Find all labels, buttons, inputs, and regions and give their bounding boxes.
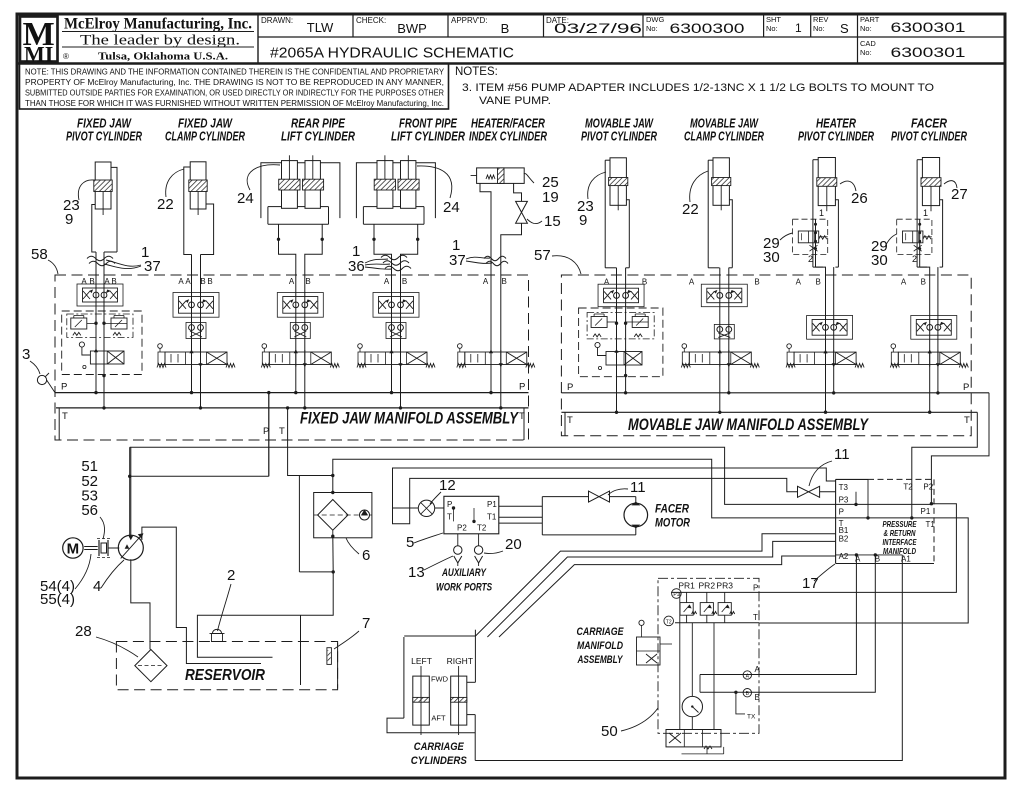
stack9 directional valve bbox=[890, 344, 968, 368]
svg-text:CLAMP CYLINDER: CLAMP CYLINDER bbox=[684, 130, 764, 144]
svg-text:S: S bbox=[840, 21, 849, 36]
label 29/30 cyl9 bbox=[871, 234, 897, 269]
cylinder 7: movable jaw clamp bbox=[708, 158, 732, 412]
svg-text:SUBMITTED OUTSIDE PARTIES FOR: SUBMITTED OUTSIDE PARTIES FOR EXAMINATIO… bbox=[25, 89, 444, 98]
label 23/9 cyl6 bbox=[577, 172, 606, 229]
labels 51 52 53 56 bbox=[81, 458, 104, 539]
svg-text:4: 4 bbox=[93, 578, 101, 595]
svg-text:CLAMP CYLINDER: CLAMP CYLINDER bbox=[165, 130, 245, 144]
svg-text:NOTES:: NOTES: bbox=[455, 66, 498, 78]
stack3 port labels bbox=[289, 277, 311, 286]
stack7 rail dots bbox=[718, 391, 730, 414]
svg-text:P1: P1 bbox=[921, 507, 931, 516]
cylinder 8: heater pivot bbox=[813, 158, 839, 413]
svg-text:T2: T2 bbox=[477, 524, 487, 533]
svg-text:36: 36 bbox=[348, 258, 365, 275]
svg-text:A: A bbox=[178, 277, 184, 286]
movable jaw manifold box bbox=[561, 275, 971, 436]
manifold2 T rail bbox=[561, 412, 977, 435]
svg-text:CARRIAGE: CARRIAGE bbox=[577, 626, 625, 638]
svg-text:T1: T1 bbox=[487, 513, 497, 522]
label 1/37 cyl5 bbox=[449, 237, 492, 269]
company name text bbox=[62, 16, 254, 63]
svg-text:AUXILIARY: AUXILIARY bbox=[441, 567, 487, 579]
svg-text:15: 15 bbox=[544, 213, 561, 230]
wire pump case drain bbox=[142, 527, 261, 663]
svg-text:37: 37 bbox=[449, 252, 466, 269]
svg-text:LIFT CYLINDER: LIFT CYLINDER bbox=[391, 130, 465, 144]
svg-text:®: ® bbox=[63, 52, 69, 61]
stack6 counterbalance pair bbox=[579, 308, 663, 377]
svg-text:PIVOT CYLINDER: PIVOT CYLINDER bbox=[891, 130, 967, 144]
cylinder 4: front pipe lift (dual) bbox=[356, 155, 435, 275]
diagonal wires to interface bbox=[475, 534, 835, 637]
svg-text:20: 20 bbox=[505, 536, 522, 553]
stack2 directional valve bbox=[157, 344, 235, 368]
carriage bottom valve bbox=[666, 730, 724, 754]
svg-text:P: P bbox=[839, 508, 844, 517]
stack2 flow control bbox=[173, 293, 219, 318]
label 17 bbox=[802, 564, 835, 592]
wire P feed to manifold1 bbox=[268, 393, 270, 477]
svg-text:B: B bbox=[402, 277, 407, 286]
svg-text:1: 1 bbox=[923, 208, 928, 218]
svg-text:& RETURN: & RETURN bbox=[884, 529, 916, 538]
svg-text:B: B bbox=[89, 277, 94, 286]
stack6 directional valve bbox=[595, 342, 642, 369]
tank drop pipe bbox=[300, 615, 302, 685]
svg-text:A: A bbox=[755, 665, 761, 674]
stack2 dual check bbox=[186, 323, 206, 339]
svg-text:A: A bbox=[384, 277, 390, 286]
svg-text:PR1: PR1 bbox=[678, 581, 695, 591]
svg-text:9: 9 bbox=[65, 211, 73, 228]
stack7 flow control bbox=[701, 284, 747, 307]
svg-text:DRAWN:: DRAWN: bbox=[261, 16, 293, 25]
svg-text:SHT: SHT bbox=[766, 15, 781, 24]
wire manifold2 P rail to interface P2 bbox=[930, 393, 989, 506]
carriage B line bbox=[700, 689, 752, 698]
svg-text:24: 24 bbox=[443, 199, 460, 216]
confidential note box bbox=[20, 64, 449, 110]
svg-text:PIVOT CYLINDER: PIVOT CYLINDER bbox=[581, 130, 657, 144]
pressure & return interface manifold bbox=[836, 479, 936, 563]
svg-text:A: A bbox=[104, 277, 110, 286]
pressure gauge 12 bbox=[418, 477, 455, 517]
McElroy logo bbox=[20, 16, 69, 67]
svg-text:#2065A HYDRAULIC SCHEMATIC: #2065A HYDRAULIC SCHEMATIC bbox=[270, 46, 514, 62]
stack4 flow control bbox=[373, 293, 419, 318]
svg-text:A: A bbox=[604, 278, 610, 287]
svg-text:1: 1 bbox=[819, 208, 824, 218]
label 26 cyl8 bbox=[840, 181, 868, 207]
svg-text:WORK PORTS: WORK PORTS bbox=[436, 582, 492, 594]
svg-text:B1: B1 bbox=[839, 526, 849, 535]
svg-text:T: T bbox=[279, 426, 285, 437]
carriage TX stub bbox=[736, 692, 745, 714]
svg-text:MOVABLE JAW: MOVABLE JAW bbox=[690, 117, 759, 131]
carriage internal wires bbox=[680, 592, 714, 729]
svg-text:PROPERTY OF McElroy Manufactur: PROPERTY OF McElroy Manufacturing, Inc. … bbox=[25, 78, 444, 87]
electric motor M bbox=[63, 538, 83, 558]
svg-text:26: 26 bbox=[851, 190, 868, 207]
svg-text:The leader by design.: The leader by design. bbox=[80, 33, 240, 49]
label 28 strainer bbox=[75, 623, 138, 657]
carriage PR labels bbox=[678, 581, 760, 721]
svg-text:B: B bbox=[111, 277, 116, 286]
svg-text:24: 24 bbox=[237, 190, 254, 207]
stack1 counterbalance pair bbox=[62, 311, 142, 375]
svg-text:3. ITEM #56 PUMP ADAPTER INCLU: 3. ITEM #56 PUMP ADAPTER INCLUDES 1/2-13… bbox=[462, 82, 934, 94]
stack6 rail dots bbox=[615, 374, 628, 414]
label 24 cyl3 bbox=[237, 165, 280, 207]
svg-text:A: A bbox=[901, 278, 907, 287]
svg-text:P1: P1 bbox=[673, 592, 679, 598]
svg-text:3: 3 bbox=[22, 346, 30, 363]
label 15 leader bbox=[527, 213, 561, 230]
svg-text:22: 22 bbox=[682, 201, 699, 218]
svg-text:B: B bbox=[200, 277, 205, 286]
svg-text:BWP: BWP bbox=[397, 21, 427, 36]
svg-text:No:: No: bbox=[860, 24, 872, 33]
svg-text:5: 5 bbox=[406, 534, 414, 551]
cylinder 6: movable jaw pivot bbox=[605, 158, 629, 412]
svg-text:9: 9 bbox=[579, 212, 587, 229]
svg-text:T: T bbox=[964, 415, 970, 426]
wire manifold2 T rail to interface T2 bbox=[910, 412, 977, 519]
stack1 flow control bbox=[77, 284, 123, 306]
stack7 port labels bbox=[689, 278, 760, 287]
svg-text:2: 2 bbox=[227, 567, 235, 584]
stack4 port labels bbox=[384, 277, 407, 286]
wire pump pressure riser bbox=[128, 447, 269, 536]
fixed jaw manifold box bbox=[55, 275, 529, 440]
label 58 manifold1 bbox=[31, 246, 58, 274]
svg-text:MANIFOLD: MANIFOLD bbox=[577, 640, 623, 652]
svg-text:A: A bbox=[185, 277, 191, 286]
svg-text:B: B bbox=[501, 21, 510, 36]
svg-text:TX: TX bbox=[747, 714, 756, 721]
svg-text:2: 2 bbox=[808, 254, 813, 264]
svg-text:37: 37 bbox=[144, 258, 161, 275]
svg-text:No:: No: bbox=[860, 48, 872, 57]
svg-text:T: T bbox=[519, 411, 525, 422]
svg-text:6300301: 6300301 bbox=[891, 20, 966, 35]
stack5 directional valve bbox=[457, 344, 535, 368]
interface internal jogs bbox=[854, 479, 869, 519]
shaft coupling bbox=[84, 539, 119, 558]
reservoir label bbox=[185, 667, 265, 684]
svg-text:T: T bbox=[567, 415, 573, 426]
svg-text:VANE PUMP.: VANE PUMP. bbox=[479, 95, 551, 107]
svg-text:13: 13 bbox=[408, 564, 425, 581]
manifold1 P rail bbox=[55, 382, 529, 393]
stack4 dual check bbox=[386, 323, 406, 339]
stack2 port labels bbox=[178, 277, 212, 286]
svg-text:B2: B2 bbox=[839, 535, 849, 544]
carriage left solenoid valve bbox=[637, 620, 673, 665]
stack5 port labels bbox=[483, 277, 507, 286]
svg-text:FACER: FACER bbox=[655, 504, 690, 516]
sight gauge 7 bbox=[327, 615, 370, 664]
return filter 6 bbox=[314, 493, 372, 572]
wire filter return line L2 bbox=[331, 459, 968, 623]
title fields row bbox=[261, 15, 966, 62]
fixed jaw manifold label bbox=[300, 409, 519, 428]
svg-text:P: P bbox=[753, 584, 758, 593]
stack9 flow control bbox=[911, 316, 957, 340]
svg-text:1: 1 bbox=[795, 21, 802, 35]
wire filter return to tank bbox=[197, 570, 335, 657]
label 25/19 cyl5 bbox=[524, 174, 559, 206]
svg-text:03/27/96: 03/27/96 bbox=[554, 20, 642, 36]
svg-text:A: A bbox=[796, 278, 802, 287]
label 22 cyl7 bbox=[682, 171, 708, 218]
svg-text:A: A bbox=[689, 278, 695, 287]
labels 54(4) 55(4) bbox=[40, 554, 91, 608]
svg-text:T: T bbox=[62, 411, 68, 422]
stack7 dual check bbox=[714, 324, 734, 339]
cylinder 9: facer pivot bbox=[917, 158, 943, 413]
carriage P line bbox=[671, 589, 759, 599]
svg-text:PIVOT CYLINDER: PIVOT CYLINDER bbox=[66, 130, 142, 144]
svg-text:Tulsa, Oklahoma U.S.A.: Tulsa, Oklahoma U.S.A. bbox=[98, 51, 228, 63]
quick disconnect 20 bbox=[474, 534, 521, 566]
reservoir box bbox=[116, 642, 337, 690]
svg-text:B: B bbox=[207, 277, 212, 286]
svg-text:6300300: 6300300 bbox=[670, 21, 745, 36]
svg-text:McElroy Manufacturing, Inc.: McElroy Manufacturing, Inc. bbox=[64, 16, 252, 33]
manifold1 T exit wire bbox=[279, 406, 334, 572]
svg-text:HEATER/FACER: HEATER/FACER bbox=[471, 117, 545, 131]
label 50 bbox=[601, 708, 658, 740]
svg-text:FIXED JAW: FIXED JAW bbox=[178, 117, 233, 131]
svg-text:19: 19 bbox=[542, 189, 559, 206]
needle valve 11 (interface) bbox=[798, 446, 850, 497]
svg-text:REAR PIPE: REAR PIPE bbox=[291, 117, 346, 131]
cylinder 3: rear pipe lift (dual) bbox=[261, 155, 340, 275]
suction strainer 28 bbox=[135, 650, 167, 682]
svg-text:LIFT CYLINDER: LIFT CYLINDER bbox=[281, 130, 355, 144]
svg-text:HEATER: HEATER bbox=[816, 117, 856, 131]
svg-text:THAN THOSE FOR WHICH IT WAS FU: THAN THOSE FOR WHICH IT WAS FURNISHED WI… bbox=[25, 99, 444, 108]
needle valve 11 (facer) bbox=[589, 479, 646, 502]
wire interface A down bbox=[752, 553, 858, 674]
svg-text:22: 22 bbox=[157, 196, 174, 213]
svg-text:B: B bbox=[755, 693, 760, 702]
svg-text:30: 30 bbox=[763, 249, 780, 266]
svg-text:A: A bbox=[81, 277, 87, 286]
label 1/36 cyl4 bbox=[348, 243, 392, 275]
movable jaw manifold label bbox=[628, 415, 869, 434]
svg-text:7: 7 bbox=[362, 615, 370, 632]
breather 2 bbox=[210, 567, 236, 642]
svg-text:FIXED JAW MANIFOLD ASSEMBLY: FIXED JAW MANIFOLD ASSEMBLY bbox=[300, 409, 519, 428]
stack1 rail dots bbox=[94, 374, 105, 410]
svg-text:A2: A2 bbox=[839, 552, 849, 561]
svg-text:6: 6 bbox=[362, 547, 370, 564]
aux work ports manifold 5 bbox=[406, 496, 499, 551]
variable pump 4 bbox=[118, 534, 143, 561]
svg-text:P: P bbox=[567, 382, 573, 393]
wire P1 route bbox=[759, 504, 956, 593]
svg-text:PRESSURE: PRESSURE bbox=[883, 520, 918, 529]
svg-text:FRONT PIPE: FRONT PIPE bbox=[399, 117, 458, 131]
stack2 rail dots bbox=[190, 391, 202, 410]
svg-text:P3: P3 bbox=[839, 496, 849, 505]
svg-text:27: 27 bbox=[951, 186, 968, 203]
svg-text:B: B bbox=[754, 278, 759, 287]
stack6 flow control bbox=[598, 284, 644, 307]
carriage manifold label bbox=[577, 626, 625, 666]
svg-text:T3: T3 bbox=[839, 483, 849, 492]
needle valve 15 bbox=[501, 201, 528, 408]
aux ports feed loop bbox=[393, 468, 836, 524]
svg-text:P1: P1 bbox=[487, 500, 497, 509]
carriage T line bbox=[664, 616, 759, 626]
title block grid bbox=[17, 14, 1005, 64]
svg-text:2: 2 bbox=[912, 254, 917, 264]
break marks cylinder 5 bbox=[484, 256, 508, 265]
break marks cylinder 1 bbox=[87, 256, 115, 265]
stack5 rail dots bbox=[489, 391, 502, 410]
svg-text:B: B bbox=[921, 278, 926, 287]
cylinder column labels bbox=[66, 117, 967, 144]
svg-text:No:: No: bbox=[646, 24, 658, 33]
svg-text:M: M bbox=[67, 541, 80, 558]
svg-text:P2: P2 bbox=[923, 483, 933, 492]
cylinder 2: fixed jaw clamp bbox=[184, 162, 214, 408]
svg-text:FIXED JAW: FIXED JAW bbox=[77, 117, 132, 131]
svg-text:MOVABLE JAW MANIFOLD ASSEMBLY: MOVABLE JAW MANIFOLD ASSEMBLY bbox=[628, 415, 869, 434]
facer motor loop bbox=[499, 497, 636, 535]
svg-text:P: P bbox=[963, 382, 969, 393]
label 29/30 cyl8 bbox=[763, 233, 793, 266]
svg-text:CAD: CAD bbox=[860, 39, 876, 48]
carriage manifold box bbox=[658, 578, 759, 733]
stack7 directional valve bbox=[681, 344, 759, 368]
label 57 manifold2 bbox=[534, 247, 581, 274]
facer motor bbox=[624, 502, 691, 530]
stack3 directional valve bbox=[261, 344, 339, 368]
svg-text:55(4): 55(4) bbox=[40, 591, 75, 608]
svg-text:A: A bbox=[289, 277, 295, 286]
svg-text:17: 17 bbox=[802, 575, 819, 592]
wire main pressure line L1 bbox=[130, 447, 932, 504]
svg-text:PART: PART bbox=[860, 15, 880, 24]
wire interface B down bbox=[752, 553, 877, 692]
svg-text:MOTOR: MOTOR bbox=[655, 518, 691, 530]
svg-text:28: 28 bbox=[75, 623, 92, 640]
wire pump to riser bbox=[130, 447, 132, 536]
svg-text:RESERVOIR: RESERVOIR bbox=[185, 667, 265, 684]
svg-text:PIVOT CYLINDER: PIVOT CYLINDER bbox=[798, 130, 874, 144]
stack9 port labels bbox=[901, 278, 926, 287]
stack8 rail dots bbox=[824, 391, 836, 414]
svg-text:B: B bbox=[816, 278, 821, 287]
stack3 dual check bbox=[290, 323, 310, 339]
label 4 pump bbox=[93, 560, 124, 595]
svg-text:No:: No: bbox=[813, 24, 825, 33]
svg-text:B: B bbox=[305, 277, 310, 286]
svg-text:T2: T2 bbox=[666, 619, 672, 625]
svg-text:PR3: PR3 bbox=[716, 581, 733, 591]
svg-text:P2: P2 bbox=[457, 524, 467, 533]
svg-text:ASSEMBLY: ASSEMBLY bbox=[577, 654, 624, 666]
svg-text:REV: REV bbox=[813, 15, 828, 24]
label 24 cyl4 bbox=[417, 166, 460, 216]
svg-text:No:: No: bbox=[766, 24, 778, 33]
svg-text:P: P bbox=[519, 382, 525, 393]
notes text bbox=[455, 66, 934, 107]
svg-text:56: 56 bbox=[81, 502, 98, 519]
svg-text:50: 50 bbox=[601, 723, 618, 740]
stack4 directional valve bbox=[357, 344, 435, 368]
cylinder 5: heater/facer index (horizontal) bbox=[471, 168, 525, 393]
manifold1 P exit wire bbox=[263, 391, 270, 476]
carriage A line bbox=[700, 671, 752, 680]
svg-text:11: 11 bbox=[834, 446, 850, 463]
svg-text:INTERFACE: INTERFACE bbox=[883, 538, 917, 547]
wire A1 long bottom route bbox=[475, 555, 902, 761]
pressure gauge 3 bbox=[22, 346, 55, 393]
stack1 port labels bbox=[81, 277, 116, 286]
aux work ports label bbox=[436, 567, 492, 594]
svg-text:TLW: TLW bbox=[307, 20, 334, 35]
svg-text:FWD: FWD bbox=[431, 675, 449, 684]
label 1/37 cyl1 bbox=[104, 244, 161, 275]
svg-text:INDEX CYLINDER: INDEX CYLINDER bbox=[469, 130, 547, 144]
pressure reducing valves PR1 PR2 PR3 bbox=[680, 592, 735, 622]
stack8 directional valve bbox=[786, 344, 864, 368]
quick disconnect 13 bbox=[408, 534, 462, 581]
svg-text:APPRV'D:: APPRV'D: bbox=[451, 16, 488, 25]
stack3 lines bbox=[296, 275, 401, 408]
stack6 port labels bbox=[604, 278, 647, 287]
stack1 directional valve bbox=[79, 342, 124, 369]
svg-text:P: P bbox=[447, 500, 452, 509]
svg-text:57: 57 bbox=[534, 247, 551, 264]
svg-text:NOTE: THIS DRAWING AND THE INF: NOTE: THIS DRAWING AND THE INFORMATION C… bbox=[25, 68, 445, 77]
svg-text:B: B bbox=[502, 277, 507, 286]
stack4 rail dots bbox=[390, 391, 402, 410]
interface manifold label bbox=[883, 520, 918, 556]
stack3 flow control bbox=[277, 293, 323, 318]
stack3 rail dots bbox=[294, 391, 306, 410]
svg-text:DWG: DWG bbox=[646, 15, 664, 24]
svg-text:T: T bbox=[447, 513, 452, 522]
label 22 cyl2 bbox=[157, 169, 184, 213]
svg-text:B: B bbox=[642, 278, 647, 287]
svg-text:T1: T1 bbox=[926, 520, 936, 529]
stack8 flow control bbox=[807, 316, 853, 340]
svg-text:T: T bbox=[753, 613, 758, 622]
stack8 port labels bbox=[796, 278, 821, 287]
svg-text:MOVABLE JAW: MOVABLE JAW bbox=[585, 117, 654, 131]
svg-text:RIGHT: RIGHT bbox=[447, 656, 473, 666]
svg-text:CARRIAGE: CARRIAGE bbox=[414, 741, 465, 753]
wire pump suction to strainer bbox=[131, 559, 150, 649]
svg-text:58: 58 bbox=[31, 246, 48, 263]
counterbalance box 29/30 (heater) bbox=[793, 208, 828, 264]
svg-text:6300301: 6300301 bbox=[891, 45, 966, 60]
manifold2 P rail bbox=[561, 382, 989, 393]
svg-text:CYLINDERS: CYLINDERS bbox=[411, 755, 468, 767]
carriage pressure gauge bbox=[682, 696, 702, 729]
svg-text:11: 11 bbox=[630, 479, 646, 496]
carriage cylinders label bbox=[411, 741, 468, 767]
label 27 cyl9 bbox=[944, 181, 968, 203]
